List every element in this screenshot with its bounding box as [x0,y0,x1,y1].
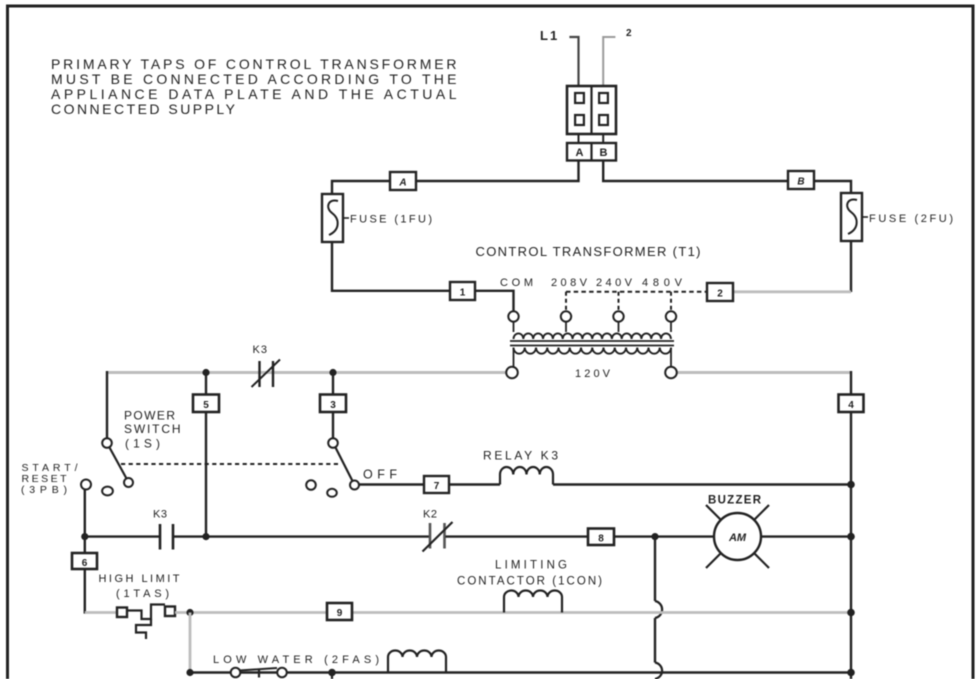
wire hop at row4 [655,663,662,680]
svg-text:FUSE (2FU): FUSE (2FU) [869,213,953,225]
wire fuse2 down [850,241,852,292]
wire drop x190 (gray) [189,613,192,673]
junction rail x206 [202,369,209,376]
rail right (gray) [677,371,852,374]
svg-text:8: 8 [598,534,604,545]
wire label box 6 [72,553,97,569]
junction right rail y484 [847,481,855,489]
wire label box A [390,172,416,190]
wire row3 gray [175,611,851,614]
svg-text:PRIMARY TAPS OF CONTROL TRANSF: PRIMARY TAPS OF CONTROL TRANSFORMER [51,56,457,72]
svg-text:CONTROL TRANSFORMER (T1): CONTROL TRANSFORMER (T1) [476,244,701,259]
wire label box B [788,171,814,189]
tap terminals [508,311,518,321]
contact K3 (NC) on rail [258,361,260,387]
wire label box 5 [193,395,219,413]
junction rail x333 [329,369,336,376]
float switch 2FAS [239,668,277,671]
junction row2 x206 [202,533,209,540]
contactor 1CON coil [504,591,562,613]
wire label box 7 [424,476,449,493]
svg-text:2: 2 [717,289,723,300]
wire box2 to fuse2 (gray) [733,290,851,293]
svg-text:OFF: OFF [363,468,397,482]
svg-text:COM: COM [500,277,533,289]
svg-text:MUST BE CONNECTED ACCORDING TO: MUST BE CONNECTED ACCORDING TO THE [51,71,457,87]
svg-text:L1: L1 [540,28,559,43]
junction right rail y612 [847,609,855,617]
svg-text:2: 2 [626,28,632,39]
wire buzzer to right rail [761,535,851,537]
relay K3 coil [500,467,553,485]
wire box1 to COM tap [475,291,514,311]
wire label box 3 [320,395,346,413]
svg-text:240V: 240V [596,277,633,289]
svg-text:7: 7 [434,481,440,492]
svg-text:BUZZER: BUZZER [708,495,762,507]
svg-text:AM: AM [728,532,747,544]
svg-text:LOW WATER (2FAS): LOW WATER (2FAS) [213,654,379,666]
wire row4 [190,671,851,673]
wire right rail x851 [850,371,852,679]
wire rail to power switch [106,371,108,439]
svg-text:POWER: POWER [124,409,175,423]
wire drop x333 [332,371,334,439]
wire B to fuse2 [603,161,851,194]
wire coil to right rail [553,483,851,485]
power switch 1S pole1 [102,438,112,448]
wire hop at row3 [655,601,662,618]
wire drop x206 [205,371,207,537]
wire drop x655 [654,537,656,601]
svg-text:A: A [398,178,406,189]
wire L1 lead [569,37,578,86]
buzzer AM [714,513,761,560]
svg-text:FUSE (1FU): FUSE (1FU) [350,214,432,226]
terminal labels A B [567,143,616,161]
svg-text:K3: K3 [153,509,167,521]
wire label box 9 [327,603,352,620]
wire L2 lead [603,37,615,86]
junction row3 x190 [186,609,193,616]
wire box8 to buzzer [614,535,714,537]
fuse 1FU [322,194,343,242]
svg-text:B: B [797,177,804,188]
secondary terminals [506,367,518,379]
svg-text:K2: K2 [423,509,437,521]
wire box7 to coil [449,483,500,485]
junction row2 x655 [651,533,658,540]
power switch 1S pole2 [328,438,338,448]
primary winding [514,333,671,339]
2FAS coil [388,651,446,673]
fuse 2FU [841,193,862,241]
core [510,340,674,342]
wire row2 mid [174,535,429,537]
wire row2 left [85,535,159,537]
contact K2 (NC) [429,523,432,549]
svg-text:A: A [576,147,584,159]
wire label box 4 [839,395,864,413]
junction right rail y536 [847,533,855,541]
svg-text:208V: 208V [551,277,588,289]
svg-text:6: 6 [82,558,88,569]
junction row4 x332 [328,669,336,677]
svg-text:B: B [600,147,608,159]
thermostat 1TAS [117,608,127,618]
svg-text:K3: K3 [253,344,268,356]
dashed tap bus to box2 [566,291,707,293]
svg-text:1: 1 [460,288,466,299]
wire label box 2 [707,283,733,301]
junction right rail y672 [847,669,855,677]
svg-text:APPLIANCE DATA PLATE AND THE A: APPLIANCE DATA PLATE AND THE ACTUAL [51,86,457,102]
wire row2 to box8 [446,535,589,537]
wire label box 8 [588,529,614,546]
svg-text:CONNECTED SUPPLY: CONNECTED SUPPLY [51,101,236,117]
wire label box 1 [450,282,475,300]
rail left (gray) [107,371,507,374]
wire 3PB to row2 [84,490,86,538]
pushbutton 3PB contacts [81,480,91,490]
wire A to fuse1 [332,161,579,195]
junction row4 x190 [186,669,193,676]
svg-text:(1TAS): (1TAS) [116,588,169,600]
svg-text:5: 5 [203,400,209,411]
svg-text:CONTACTOR (1CON): CONTACTOR (1CON) [457,576,602,588]
wire fuse1 to box1 [332,242,450,291]
svg-text:3: 3 [330,400,336,411]
junction row2 x84.8 [81,533,88,540]
svg-text:9: 9 [337,608,343,619]
secondary winding [514,348,672,354]
mechanical link dashed [121,463,340,465]
wire drop x84.8 to row3 [84,537,86,614]
svg-text:120V: 120V [575,368,611,380]
svg-text:4: 4 [848,400,854,411]
switch contact to box 7 [350,481,359,490]
label FUSE (1FU) [343,217,349,219]
terminal block TB [578,86,580,160]
svg-text:RELAY K3: RELAY K3 [483,449,558,463]
contact K3 (NO) [159,524,162,550]
label FUSE (2FU) [862,216,868,218]
